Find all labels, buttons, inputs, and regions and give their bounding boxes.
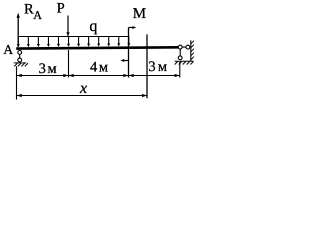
value label 3м right	[148, 59, 169, 75]
extension line at A	[16, 66, 18, 99]
svg-text:A: A	[33, 8, 42, 22]
distributed load q top line	[18, 36, 129, 38]
label M	[133, 6, 146, 22]
svg-text:4м: 4м	[90, 60, 110, 76]
distributed load q arrows	[17, 37, 131, 48]
support A ground	[14, 63, 28, 67]
reaction arrow R_A	[17, 13, 20, 47]
dimension line row 2 (x)	[17, 94, 148, 97]
right support wall	[191, 40, 194, 61]
section line x	[146, 34, 148, 98]
node A label	[3, 42, 13, 57]
dimension line row 1	[17, 74, 180, 77]
label P	[57, 1, 65, 17]
beam	[16, 47, 178, 48]
svg-text:A: A	[3, 42, 13, 57]
svg-text:x: x	[79, 80, 87, 97]
right support rollers	[178, 45, 190, 60]
value label 3м left	[39, 61, 59, 77]
extension line at right support	[179, 62, 181, 78]
svg-text:q: q	[89, 18, 97, 35]
extension line under P	[68, 50, 70, 78]
label q	[89, 18, 97, 35]
svg-text:3м: 3м	[39, 61, 59, 77]
svg-text:P: P	[57, 1, 65, 17]
label R_A	[24, 1, 42, 22]
svg-text:M: M	[133, 6, 146, 22]
svg-text:3м: 3м	[148, 59, 169, 75]
moment M arrow	[120, 26, 136, 78]
value label 4м	[90, 60, 110, 76]
value label x	[79, 80, 87, 97]
force P arrow	[66, 16, 69, 37]
right support ground	[175, 61, 194, 64]
support A rollers	[18, 51, 22, 62]
